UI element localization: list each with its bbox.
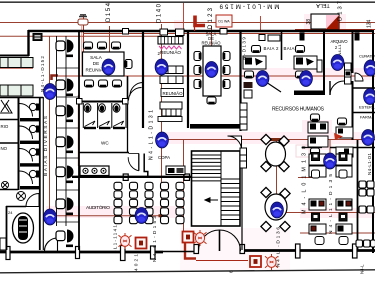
recursos top wall <box>294 91 324 96</box>
svg-text:SALA: SALA <box>90 55 103 60</box>
svg-text:N4-L: N4-L <box>360 264 365 274</box>
elbow auditorio junction <box>159 208 162 216</box>
left cabinets <box>240 103 247 168</box>
wall x241 lower to floor <box>241 150 243 250</box>
small circle symbol <box>1 181 8 188</box>
rail box right <box>241 149 245 160</box>
wall x241 <box>239 31 241 131</box>
arrow <box>205 199 218 201</box>
svg-text:WC: WC <box>101 141 109 146</box>
cubicle wall x79 <box>78 31 80 250</box>
svg-text:RECURSOS HUMANOS: RECURSOS HUMANOS <box>272 107 325 113</box>
svg-text:D140: D140 <box>157 3 163 23</box>
accessible wc tub figure <box>13 213 34 243</box>
round table 2 <box>261 187 290 231</box>
vertical x183.5 copa down <box>183 140 185 231</box>
svg-text:N4-L1: N4-L1 <box>337 44 342 56</box>
vertical x276.5 <box>276 140 278 206</box>
right farmacia desks <box>334 118 353 157</box>
vertical x330 stub <box>329 140 331 156</box>
stall front bars <box>84 127 125 129</box>
svg-text:AUDITÓRIO: AUDITÓRIO <box>86 204 110 211</box>
auditorio top wall <box>72 176 191 178</box>
left rooms: wc column walls <box>18 97 20 190</box>
pink tint patches <box>46 14 375 270</box>
red line copa y140 <box>162 139 375 141</box>
svg-text:RIO: RIO <box>1 124 9 129</box>
wc toilets <box>29 103 39 177</box>
vertical x211.5 <box>211 26 213 66</box>
svg-text:CURATIV: CURATIV <box>359 54 375 59</box>
door arc sala->wc corridor <box>130 83 143 96</box>
cubicle desk line x66 <box>65 36 67 226</box>
svg-text:REUNIÃO: REUNIÃO <box>162 91 183 96</box>
wall posts bottom <box>6 174 357 261</box>
svg-text:38: 38 <box>306 19 312 25</box>
bottom wall left <box>0 251 163 254</box>
svg-text:MM-L01-M159: MM-L01-M159 <box>219 3 280 10</box>
row2: desks + dark chairs <box>309 199 352 221</box>
svg-text:134: 134 <box>367 19 373 28</box>
vertical x109.5 <box>109 26 111 76</box>
vertical x49 <box>49 36 51 212</box>
stall dividers <box>83 103 126 128</box>
bottom L from box <box>185 243 196 259</box>
desks right of recursos <box>308 114 328 155</box>
svg-text:N4-L1-D1: N4-L1-D1 <box>367 152 372 175</box>
sala2 bottom wall <box>190 124 242 129</box>
svg-text:N4-L1-D152: N4-L1-D152 <box>40 56 45 92</box>
right wall <box>372 30 374 253</box>
svg-text:FARMA: FARMA <box>360 115 374 120</box>
left flight steps <box>192 155 221 181</box>
vertical x83.5 <box>83 15 85 76</box>
svg-text:24: 24 <box>8 210 13 215</box>
TELA screen <box>311 14 339 29</box>
right rooms divider y113 <box>352 112 375 114</box>
red line top C <box>0 35 162 37</box>
svg-text:COPA: COPA <box>158 155 170 160</box>
top wall <box>28 30 372 33</box>
wc stall doors <box>20 104 33 185</box>
svg-text:4021: 4021 <box>134 254 140 271</box>
kitchen counter burners <box>80 166 109 176</box>
red box D123 <box>216 15 232 27</box>
right rooms divider y88 <box>352 87 375 89</box>
red line top B <box>84 33 375 35</box>
cabinets row2 <box>0 85 33 96</box>
round table 1 <box>261 134 289 171</box>
copa door header <box>129 153 140 155</box>
top-left step vertical <box>27 30 29 56</box>
swing doors diagonals <box>85 121 124 127</box>
right rooms divider y147 <box>330 147 375 149</box>
svg-text:DE: DE <box>93 61 99 66</box>
svg-text:ESTERIL: ESTERIL <box>359 105 375 110</box>
arquivo shelf <box>345 63 352 84</box>
upside-down top labels <box>219 3 280 10</box>
small cab bottom-left <box>0 238 6 250</box>
baia diagonal <box>266 82 281 92</box>
toilets <box>84 104 120 112</box>
wall x281 baia divider <box>281 31 283 60</box>
right flight steps <box>221 179 240 220</box>
svg-text:TELA: TELA <box>316 2 330 8</box>
wall x188 <box>187 31 189 128</box>
svg-text:N4-L1-D153: N4-L1-D153 <box>152 216 158 262</box>
wc bottom wall <box>79 152 129 154</box>
svg-text:D1 WA: D1 WA <box>218 20 230 24</box>
red line top A <box>0 22 375 24</box>
top border line <box>0 1 375 3</box>
cubicle left edge x56 <box>56 36 58 226</box>
top red L <box>195 16 205 26</box>
mid wall with posts <box>77 101 128 103</box>
door arc corredor (sala2 wall) <box>228 136 242 150</box>
wall x143 meeting rooms <box>142 31 144 128</box>
door arc wc acess <box>26 194 39 207</box>
svg-text:REUNIÃO: REUNIÃO <box>160 49 181 55</box>
top liga symbol <box>78 15 88 25</box>
sofas right edge <box>356 181 375 247</box>
junction thick at table1 <box>270 138 286 141</box>
red line right top <box>295 29 375 31</box>
ground line full width <box>0 270 375 273</box>
door arc near x330 y90 <box>330 81 344 95</box>
svg-text:N4-L11-D135: N4-L11-D135 <box>328 174 334 234</box>
entry door arc <box>129 88 142 101</box>
row3: desks + white chairs <box>309 224 352 245</box>
svg-text:BAIA 2: BAIA 2 <box>264 46 280 51</box>
red line mid y76 <box>51 75 375 77</box>
top-left step horizontal <box>0 55 29 57</box>
bottom wall thin mid <box>163 251 194 253</box>
arquivo divider x352 <box>352 31 354 73</box>
top wall boxes <box>33 29 359 42</box>
door arc bottom-left room <box>45 238 58 251</box>
red line auditorio y215.5 <box>49 215 160 217</box>
bottom line to box <box>196 260 248 262</box>
svg-text:ARQUIVO: ARQUIVO <box>331 39 348 44</box>
copa counters <box>166 166 185 175</box>
red line tables y212.5 <box>277 212 375 214</box>
svg-text:NO: NO <box>1 146 8 151</box>
X symbol room <box>0 100 12 113</box>
wall x357 lower <box>357 140 359 250</box>
top-left cabinets row1 <box>0 58 33 97</box>
vertical x162 <box>161 24 163 212</box>
wall x324 <box>323 31 325 95</box>
flower symbol <box>17 192 26 201</box>
row1: dark chairs on desks <box>309 153 352 179</box>
svg-text:N4-L -D136: N4-L -D136 <box>276 227 282 267</box>
copa left wall <box>144 154 148 178</box>
bottom wall right of doors <box>244 249 375 252</box>
svg-text:D154: D154 <box>106 2 112 22</box>
red line desks y233 <box>300 232 375 234</box>
right wall of wc room <box>127 76 129 99</box>
